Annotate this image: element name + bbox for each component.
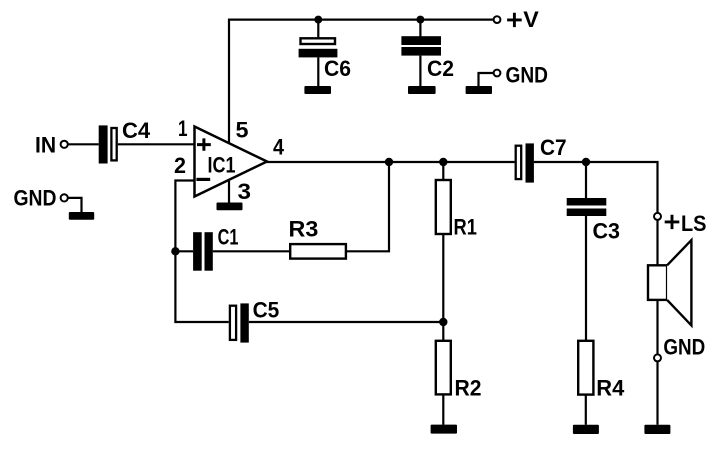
- svg-text:R4: R4: [596, 376, 625, 401]
- wire pin 3: [228, 181, 230, 203]
- ground supply: [466, 86, 492, 94]
- wire GND input: [68, 198, 82, 212]
- terminal +LS: [654, 213, 661, 220]
- svg-text:IC1: IC1: [208, 152, 236, 177]
- terminal GND supply: [494, 70, 501, 77]
- ground under C6: [304, 86, 331, 94]
- capacitor C1: [193, 232, 213, 271]
- op-amp minus input mark: [196, 178, 210, 181]
- capacitor C7: [516, 143, 534, 182]
- wire GND terminal to ground: [656, 361, 658, 424]
- capacitor C6: [299, 20, 338, 87]
- junction feedback: [385, 158, 393, 166]
- svg-text:3: 3: [238, 179, 252, 204]
- wire output line: [267, 162, 658, 213]
- svg-text:C1: C1: [218, 225, 239, 250]
- junction C2 top: [416, 16, 424, 24]
- wire pin 2 loop to C1/C5 node: [175, 181, 228, 323]
- svg-text:R2: R2: [455, 376, 482, 401]
- svg-text:R3: R3: [289, 217, 319, 242]
- capacitor C4: [99, 125, 117, 163]
- wire speaker to GND terminal: [656, 300, 658, 355]
- wire feedback R3 to output: [346, 162, 389, 251]
- ground input: [69, 212, 94, 220]
- svg-text:C6: C6: [324, 56, 351, 81]
- capacitor C5: [230, 303, 249, 342]
- svg-text:C4: C4: [122, 118, 151, 143]
- svg-text:1: 1: [178, 116, 188, 141]
- wire top rail and pin 5 lead: [229, 20, 494, 143]
- svg-text:V: V: [523, 7, 539, 32]
- resistor R2: [436, 322, 451, 425]
- terminal IN: [61, 141, 68, 148]
- svg-text:4: 4: [273, 135, 285, 160]
- capacitor C2: [401, 20, 441, 87]
- wire node to C1: [175, 250, 193, 252]
- wire IN to C4: [68, 143, 99, 145]
- svg-text:LS: LS: [681, 211, 707, 236]
- label +LS: [665, 215, 680, 229]
- svg-text:IN: IN: [35, 132, 56, 157]
- svg-text:GND: GND: [14, 186, 57, 211]
- terminal +V: [494, 16, 501, 23]
- ground pin 3: [217, 203, 243, 211]
- op-amp plus input mark: [197, 138, 211, 150]
- junction C3 top: [582, 158, 590, 166]
- wire +LS to speaker: [656, 220, 658, 266]
- svg-text:C2: C2: [427, 56, 454, 81]
- svg-text:C3: C3: [593, 218, 621, 243]
- capacitor C3: [567, 162, 607, 341]
- ground speaker: [644, 425, 670, 434]
- junction C1 node: [171, 247, 179, 255]
- terminal GND input: [61, 194, 68, 201]
- ground R4: [573, 425, 599, 434]
- resistor R4: [578, 341, 593, 425]
- svg-text:C5: C5: [253, 298, 280, 323]
- junction R1 top: [439, 158, 447, 166]
- svg-text:R1: R1: [454, 214, 477, 239]
- terminal GND speaker: [654, 354, 661, 361]
- svg-text:2: 2: [174, 153, 186, 178]
- speaker LS: [648, 240, 691, 325]
- ground under C2: [408, 86, 436, 94]
- wire GND supply: [479, 73, 494, 86]
- wire C4 to pin 1: [118, 143, 195, 145]
- svg-text:C7: C7: [540, 135, 567, 160]
- wire C1 to R3: [213, 250, 290, 252]
- svg-text:GND: GND: [506, 63, 549, 88]
- svg-text:GND: GND: [663, 335, 705, 360]
- junction C6 top: [314, 16, 322, 24]
- label +V: [507, 13, 522, 27]
- resistor R1: [436, 162, 451, 322]
- op-amp U1 triangle: [195, 127, 268, 197]
- resistor R3: [290, 244, 346, 259]
- wire C5 to junction: [249, 321, 443, 323]
- junction C5/R1/R2: [439, 318, 447, 326]
- ground R2: [431, 425, 457, 434]
- svg-text:5: 5: [236, 118, 249, 143]
